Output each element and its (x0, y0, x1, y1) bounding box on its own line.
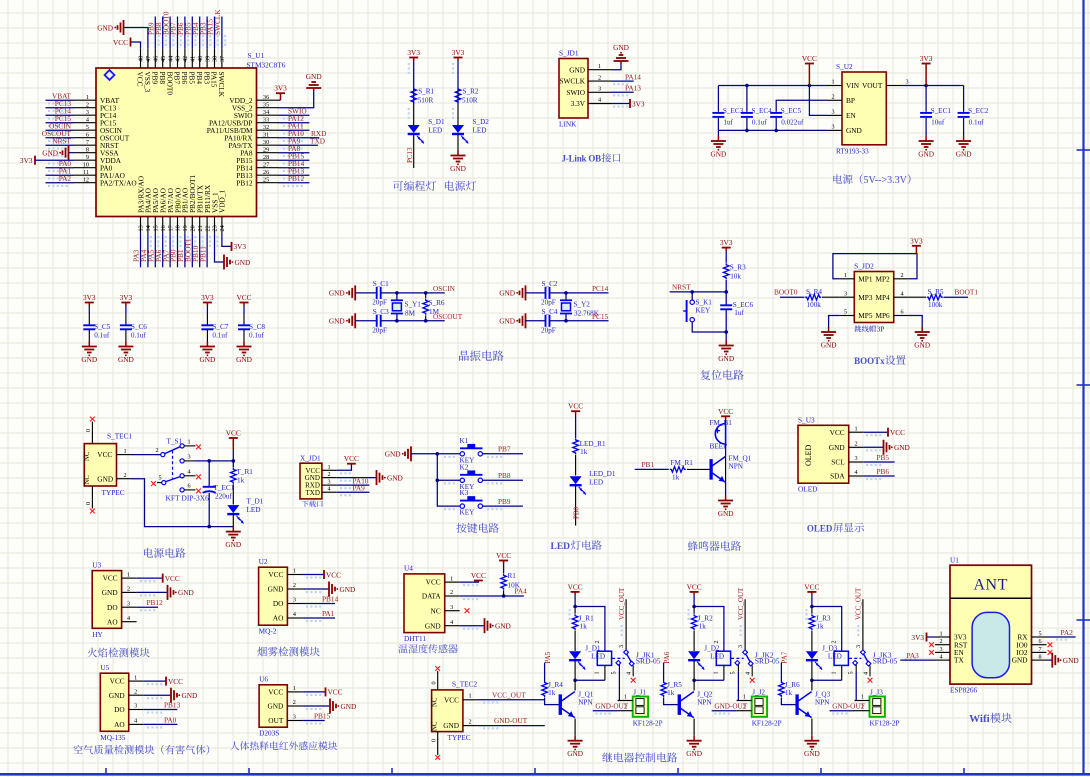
power VCC at pin 48 (113, 38, 131, 47)
svg-text:LED: LED (428, 127, 442, 135)
wire (925, 86, 927, 137)
designator S_U1 (248, 51, 265, 60)
wire (137, 591, 168, 593)
wire net PA2 (1047, 636, 1076, 638)
wire net PA3 (bottom) (140, 233, 142, 267)
wire (909, 296, 968, 298)
wire (864, 446, 884, 448)
value MQ-135 (100, 733, 125, 742)
wire net PB8 (top) (162, 17, 164, 49)
wire (574, 631, 576, 651)
pin 1 GND (S_JD1) (569, 63, 611, 74)
IC body U5 (MQ-135) (100, 673, 128, 731)
svg-text:S_U2: S_U2 (836, 62, 853, 71)
node PA0 (59, 159, 72, 168)
svg-text:GND: GND (178, 588, 194, 597)
svg-text:PA14: PA14 (625, 72, 641, 81)
pin 3 NC (U4) (431, 604, 460, 615)
pin 39 PB3 (top) (202, 49, 211, 85)
pin 1 VCC (S_U3) (830, 425, 864, 436)
wire net PA1 (46, 174, 75, 176)
label RXD (311, 129, 326, 138)
svg-text:DO: DO (107, 603, 118, 612)
capacitor S_C2 (541, 280, 558, 306)
pin 4 relay (745, 666, 753, 677)
node PA5 (relay) (544, 651, 552, 663)
diode LED J_D1 (569, 645, 605, 670)
svg-text:S_TEC1: S_TEC1 (107, 432, 132, 441)
pin 4 x (J_JK3) (868, 678, 873, 683)
node NRST (52, 137, 71, 146)
pin 47 VSS_3 (top) (143, 49, 152, 93)
pin 3 relay common (737, 599, 745, 651)
wire (574, 661, 576, 681)
wire (302, 705, 330, 707)
diode LED S_D2 (452, 118, 489, 143)
pin 22 PB11/RX (bottom) (203, 184, 212, 233)
svg-text:PB5: PB5 (877, 453, 890, 462)
svg-text:VCC_OUT: VCC_OUT (855, 587, 863, 620)
pin 4 SDA (S_U3) (830, 469, 864, 480)
junction (724, 330, 728, 334)
svg-text:S_C2: S_C2 (542, 280, 558, 288)
svg-text:VCC: VCC (326, 570, 341, 579)
svg-text:VCC: VCC (328, 688, 343, 697)
svg-text:1: 1 (713, 671, 720, 674)
svg-text:NPN: NPN (815, 699, 830, 707)
ground (S_C2 top) (499, 285, 525, 300)
svg-text:FM_B1: FM_B1 (710, 419, 733, 427)
resistor S_R2 (455, 88, 479, 105)
svg-text:3V3: 3V3 (20, 156, 33, 165)
svg-text:LED_R1: LED_R1 (580, 440, 606, 448)
svg-text:1: 1 (743, 694, 746, 701)
power VCC (S_U3) (888, 428, 905, 437)
svg-text:4: 4 (86, 117, 89, 124)
node PA14 (625, 72, 641, 81)
svg-text:36: 36 (263, 94, 269, 101)
pin 40 PB4 (top) (195, 49, 204, 85)
pin 0 (S_TEC1 bottom) (85, 486, 95, 513)
svg-text:GND: GND (613, 43, 629, 52)
svg-text:VCC: VCC (426, 578, 441, 587)
svg-text:25: 25 (263, 177, 269, 184)
junction (745, 129, 749, 133)
designator S_TEC2 (452, 680, 477, 689)
power VCC (U5) (166, 677, 183, 686)
svg-text:20: 20 (190, 225, 197, 231)
relay coil J_JK1 (594, 640, 612, 680)
wire DATA net PA4 (460, 595, 524, 597)
svg-text:5: 5 (611, 671, 618, 674)
pin 4 MP4 (S_JD2 right) (875, 290, 908, 301)
wire net PB6 (864, 475, 895, 477)
node PB14 (322, 595, 339, 604)
ground (power circuit) (225, 527, 241, 550)
svg-text:1: 1 (624, 694, 627, 701)
resistor S_R1 (411, 88, 435, 105)
svg-text:MP5: MP5 (858, 311, 873, 320)
pin 0 (S_TEC1 top) (85, 417, 95, 444)
wire net PA8 (279, 152, 310, 154)
svg-text:S_JD1: S_JD1 (559, 49, 579, 58)
svg-text:11: 11 (83, 169, 89, 176)
relay contact blade J_JK1 (612, 650, 634, 666)
svg-text:U2: U2 (259, 557, 268, 566)
caption J-Link OB接口 (562, 153, 621, 163)
wire net PA11 (279, 129, 310, 131)
svg-text:R1: R1 (508, 572, 517, 580)
svg-text:2: 2 (293, 699, 296, 706)
capacitor S_C3 (372, 308, 389, 334)
caption 火焰检测模块 (87, 648, 149, 658)
designator X_JD1 (300, 454, 321, 463)
wire (780, 296, 839, 298)
svg-text:20pF: 20pF (372, 326, 387, 334)
wire net PA4 (bottom) (147, 233, 149, 267)
ground (buzzer) (718, 496, 734, 519)
svg-text:2: 2 (155, 447, 158, 454)
pin 1 VCC (U4) (426, 575, 460, 586)
svg-text:3: 3 (854, 455, 857, 462)
pin 3 relay common (855, 599, 863, 651)
svg-text:1uf: 1uf (734, 309, 744, 317)
wire coil feed (694, 607, 724, 652)
pin 45 PB8 (top) (158, 49, 167, 85)
svg-text:VOUT: VOUT (862, 81, 883, 90)
svg-text:GND: GND (499, 317, 515, 326)
wire (206, 306, 208, 325)
pin 5 (T_S1) (151, 475, 162, 487)
pin EN x (929, 650, 934, 655)
ground (U3) (168, 585, 194, 600)
svg-text:4: 4 (900, 290, 903, 297)
power 3V3 (BOOTx) (910, 236, 923, 253)
svg-text:U5: U5 (100, 663, 109, 672)
svg-text:5: 5 (730, 671, 737, 674)
svg-text:VDD_1: VDD_1 (218, 190, 227, 213)
svg-text:S_EC2: S_EC2 (968, 107, 989, 115)
svg-text:0.1uf: 0.1uf (94, 332, 110, 340)
wire (413, 105, 415, 126)
junction (573, 679, 577, 683)
svg-text:GND: GND (821, 341, 837, 350)
svg-text:24: 24 (219, 225, 226, 231)
svg-text:0.1uf: 0.1uf (752, 119, 768, 127)
wire (457, 61, 459, 105)
ground (S_C4 bottom) (499, 313, 525, 328)
svg-text:2: 2 (831, 640, 838, 643)
svg-text:47: 47 (145, 56, 152, 62)
wire net PB7 (top) (177, 17, 179, 49)
svg-text:4: 4 (134, 718, 137, 725)
svg-text:PB6: PB6 (877, 467, 890, 476)
svg-text:23: 23 (212, 225, 219, 231)
svg-text:2: 2 (713, 640, 720, 643)
ground (S_EC2) (956, 136, 972, 159)
svg-text:PA9: PA9 (353, 483, 366, 492)
svg-text:MP1: MP1 (858, 274, 873, 283)
svg-text:3: 3 (598, 86, 601, 93)
pin 20 PB2/BOOT1 (bottom) (188, 175, 197, 234)
svg-text:1k: 1k (672, 474, 680, 482)
svg-text:VCC: VCC (113, 38, 128, 47)
svg-text:S_U1: S_U1 (248, 51, 265, 60)
wire (125, 306, 127, 325)
pin 1 MP1 (S_JD2 left) (839, 272, 873, 283)
svg-text:2: 2 (468, 718, 471, 725)
transistor J_Q3 (796, 691, 831, 718)
wire net PB4 (top) (199, 17, 201, 49)
resistor S_R5 (927, 288, 944, 309)
svg-text:BOOTx: BOOTx (854, 356, 885, 366)
svg-text:PB12: PB12 (288, 174, 305, 183)
wire coil feed (575, 607, 605, 652)
svg-text:SWCLK: SWCLK (559, 77, 585, 86)
svg-text:ANT: ANT (974, 577, 1008, 594)
wire net PB13 (144, 709, 178, 711)
resistor J_R2 (691, 614, 713, 630)
node PA13 (625, 84, 641, 93)
svg-text:1: 1 (831, 79, 834, 86)
designator J_JK1 (636, 650, 661, 665)
svg-text:1: 1 (830, 671, 837, 674)
node SWCLK (top) (213, 9, 222, 35)
svg-text:40: 40 (197, 56, 204, 62)
svg-text:PC15: PC15 (592, 312, 609, 321)
svg-text:VIN: VIN (846, 81, 860, 90)
connector body S_TEC1 (84, 444, 116, 486)
pin 15 PA5/AO (bottom) (151, 188, 160, 233)
wire (132, 454, 161, 456)
power 3V3 (S_C5) (83, 293, 96, 306)
resistor J_R5 (661, 681, 682, 697)
svg-text:5: 5 (158, 475, 161, 482)
pin 2 GND (U3) (102, 586, 137, 597)
svg-text:PA7: PA7 (781, 651, 789, 663)
pin 24 VDD_1 (bottom) (218, 190, 227, 234)
resistor S_R3 (723, 263, 746, 280)
pin 4 x (J_JK2) (750, 678, 755, 683)
svg-text:BEEP: BEEP (710, 443, 728, 451)
svg-text:GND: GND (718, 509, 734, 518)
junction (692, 605, 696, 609)
node PA4 (bottom) (139, 249, 148, 262)
node GND-OUT (J_J1) (595, 702, 628, 710)
svg-text:21: 21 (197, 225, 204, 231)
svg-text:18: 18 (175, 225, 182, 231)
junction (573, 605, 577, 609)
caption 电源灯 (445, 181, 476, 191)
connector J_J3 (KF128-2P) (855, 689, 900, 728)
svg-text:6: 6 (900, 309, 903, 316)
svg-text:S_TEC2: S_TEC2 (452, 680, 477, 689)
svg-text:3: 3 (293, 597, 296, 604)
connector J_J2 (KF128-2P) (737, 689, 782, 728)
buzzer FM_B1 (710, 419, 733, 451)
wire collector (574, 680, 576, 690)
svg-text:J_R4: J_R4 (548, 681, 563, 689)
pin 2 GND (U6) (267, 699, 302, 710)
ground (BOOTx left) (821, 327, 837, 350)
pin 46 PB9 (top) (151, 49, 160, 85)
wire (927, 636, 936, 638)
pin 2 SWCLK (S_JD1) (559, 74, 611, 85)
pin 1 VCC (X_JD1) (305, 464, 336, 475)
svg-text:0.022uf: 0.022uf (781, 119, 804, 127)
svg-text:BOOT0: BOOT0 (774, 288, 798, 297)
node PB8 (498, 471, 511, 480)
ground (J_Q1) (567, 736, 583, 759)
node PB5 (877, 453, 890, 462)
pin IO2 x (1048, 650, 1053, 655)
svg-text:GND: GND (425, 621, 441, 630)
svg-text:VCC: VCC (168, 677, 183, 686)
wire net PB0 (bottom) (177, 233, 179, 267)
svg-text:S_C6: S_C6 (131, 323, 147, 331)
svg-text:20pF: 20pF (541, 326, 556, 334)
svg-text:NC: NC (431, 606, 441, 615)
node PC15 (55, 114, 72, 123)
wire net PA1 (302, 617, 335, 619)
svg-text:NRST: NRST (52, 137, 71, 146)
svg-text:20pF: 20pF (372, 298, 387, 306)
svg-text:2: 2 (854, 441, 857, 448)
wire (829, 316, 840, 328)
svg-text:1: 1 (127, 571, 130, 578)
node OSCOUT (433, 312, 463, 321)
svg-text:S_D1: S_D1 (428, 118, 445, 126)
svg-text:AO: AO (273, 614, 284, 623)
svg-text:KFT DIP-3X6: KFT DIP-3X6 (166, 494, 210, 503)
svg-text:33: 33 (263, 117, 269, 124)
svg-text:2: 2 (134, 688, 137, 695)
node PC13 (406, 147, 414, 163)
svg-text:U6: U6 (259, 675, 268, 684)
svg-text:SWCLK: SWCLK (213, 9, 222, 35)
svg-text:S_Y1: S_Y1 (405, 301, 422, 309)
svg-text:PC14: PC14 (592, 284, 609, 293)
svg-text:3V3: 3V3 (201, 293, 214, 302)
designator S_TEC1 (107, 432, 132, 441)
power VCC (power circuit) (226, 429, 241, 451)
svg-text:S_C8: S_C8 (249, 323, 265, 331)
wire (864, 431, 888, 433)
svg-text:0.1uf: 0.1uf (212, 332, 228, 340)
wire (355, 292, 376, 294)
svg-text:HY: HY (92, 630, 103, 639)
wire net PB14 (279, 167, 310, 169)
caption 电源电路 (144, 548, 185, 558)
pin 1 VCC (U5) (110, 674, 144, 685)
svg-text:J_R2: J_R2 (698, 615, 713, 623)
svg-text:1: 1 (861, 694, 864, 701)
svg-text:GND: GND (81, 355, 97, 364)
wire net PA0 (46, 167, 75, 169)
junction (745, 84, 749, 88)
wire to ground (S_U2) (717, 130, 719, 136)
pin 13 PA3/RX/AO (bottom) (136, 176, 145, 233)
node PA4 (515, 587, 528, 596)
wire net PB15 (279, 159, 310, 161)
svg-text:1k: 1k (699, 623, 707, 631)
pin 1 3V3 (U1 left) (935, 631, 967, 642)
svg-text:S_D2: S_D2 (473, 118, 490, 126)
svg-text:Wifi: Wifi (969, 713, 990, 725)
svg-text:VCC: VCC (568, 582, 583, 591)
pin 4 TXD (X_JD1) (306, 486, 337, 497)
power 3V3 at pin 9 VDDA (20, 156, 74, 165)
svg-text:LED_D1: LED_D1 (589, 470, 616, 478)
junction (207, 525, 211, 529)
svg-text:3V3: 3V3 (911, 633, 924, 642)
junction (564, 291, 568, 323)
wire emitter (693, 719, 695, 736)
svg-text:GND: GND (341, 702, 357, 711)
ground (S_C1 top) (329, 285, 355, 300)
wire VSS_2 to ground (279, 91, 314, 108)
power VCC (J_R1) (568, 582, 583, 595)
node PB10 (bottom) (191, 245, 200, 262)
svg-text:D203S: D203S (259, 729, 279, 738)
node PC14 (55, 107, 72, 116)
wire net PB12 (137, 606, 158, 608)
label OLED (inside) (804, 444, 813, 466)
wire GND rail (718, 129, 827, 131)
pin 3 RXD (X_JD1) (305, 479, 337, 490)
capacitor S_C4 (541, 308, 558, 334)
wire net PC13 (46, 107, 75, 109)
svg-text:S_K1: S_K1 (696, 299, 713, 307)
pin 6 OSCOUT (left) (74, 132, 130, 143)
pin 4 AO (U5) (114, 718, 144, 729)
svg-text:T_S1: T_S1 (167, 438, 183, 446)
svg-text:S_U3: S_U3 (798, 415, 815, 424)
wire net SWIO (279, 114, 310, 116)
svg-text:8: 8 (86, 147, 89, 154)
wire (725, 456, 727, 482)
ground (S_EC1) (918, 136, 934, 159)
svg-text:1k: 1k (667, 689, 675, 697)
wire (575, 415, 577, 439)
designator J_JK3 (873, 650, 898, 665)
svg-text:3: 3 (618, 645, 625, 648)
svg-text:39: 39 (204, 56, 211, 62)
node PB8 (top) (154, 22, 163, 35)
power VCC (U2) (324, 570, 341, 579)
svg-text:S_EC4: S_EC4 (751, 107, 772, 115)
pin 1 VCC (S_TEC2) (444, 693, 478, 705)
svg-text:TXD: TXD (306, 489, 320, 497)
svg-text:1: 1 (187, 439, 190, 446)
node PA5 (bottom) (147, 249, 156, 262)
svg-text:37: 37 (219, 56, 226, 62)
wire net PB14 (302, 603, 335, 605)
svg-text:3: 3 (293, 714, 296, 721)
svg-text:1: 1 (854, 425, 857, 432)
svg-text:DATA: DATA (422, 592, 442, 601)
svg-text:S_Y2: S_Y2 (574, 301, 591, 309)
node PA7 (relay) (781, 651, 789, 663)
pin 48 VCC (top) (136, 49, 145, 87)
wire GND (S_JD1 pin1) (611, 64, 621, 70)
capacitor S_C8 (238, 323, 265, 340)
svg-text:4: 4 (939, 654, 942, 661)
power VCC (U6) (326, 687, 343, 696)
wire net GND-OUT (478, 725, 545, 727)
node PA2 (1061, 628, 1074, 637)
transistor J_Q1 (559, 691, 594, 718)
